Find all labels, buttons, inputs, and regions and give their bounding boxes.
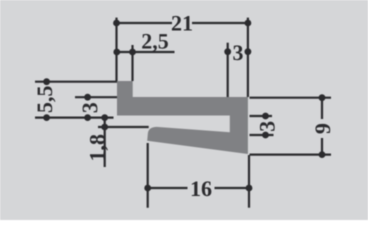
dim 3 left top line: [75, 96, 117, 98]
dim 3 top-right text: [233, 45, 242, 60]
dim 3 right bottom line: [250, 134, 274, 136]
dim 3 top-right dots: [224, 48, 231, 55]
dim 5,5 dots: [43, 78, 50, 85]
dim 21 dots: [113, 20, 120, 27]
dim 1,8 dot bottom: [101, 124, 108, 131]
dim 3 left dots: [84, 94, 91, 101]
dim 21 line: [117, 22, 173, 24]
dim 1,8 text: [90, 135, 108, 160]
dim 5,5 top line: [35, 81, 117, 83]
ext line left of 21/2,5: [115, 18, 117, 81]
dim 9 bottom line: [250, 154, 332, 156]
dim 9 top line: [250, 97, 332, 99]
dim 16 ext line left: [147, 143, 149, 208]
dim 2,5 dots: [113, 49, 120, 56]
dim 3 right top line: [250, 115, 273, 117]
dim 9 dots: [319, 94, 326, 101]
bottom-left shared line: [35, 116, 114, 118]
dim 3 left text: [83, 103, 98, 112]
dim 3 right text: [260, 122, 275, 131]
dim 9 vertical line: [321, 98, 323, 119]
profile shape: [117, 81, 248, 154]
dim 16 text: [192, 181, 212, 196]
dim 16 dots: [144, 185, 151, 192]
dim 9 text: [315, 124, 330, 134]
ext line right of 21: [247, 18, 249, 97]
dim 16 line: [148, 187, 188, 189]
dim 2,5 line: [114, 51, 175, 53]
dim 21 text: [172, 16, 192, 31]
dim 2,5 text: [142, 34, 168, 52]
dim 3 right dots: [262, 113, 269, 120]
dim 5,5 text: [38, 86, 56, 112]
dim 2,5 ext line: [131, 45, 133, 81]
dim 1,8 dot top: [101, 114, 108, 121]
dim 1,8 vertical line: [104, 118, 106, 167]
dim 1,8 lower line: [98, 126, 149, 128]
dim 3 top-right ext line: [227, 43, 229, 97]
dim 16 ext line right: [248, 155, 250, 208]
